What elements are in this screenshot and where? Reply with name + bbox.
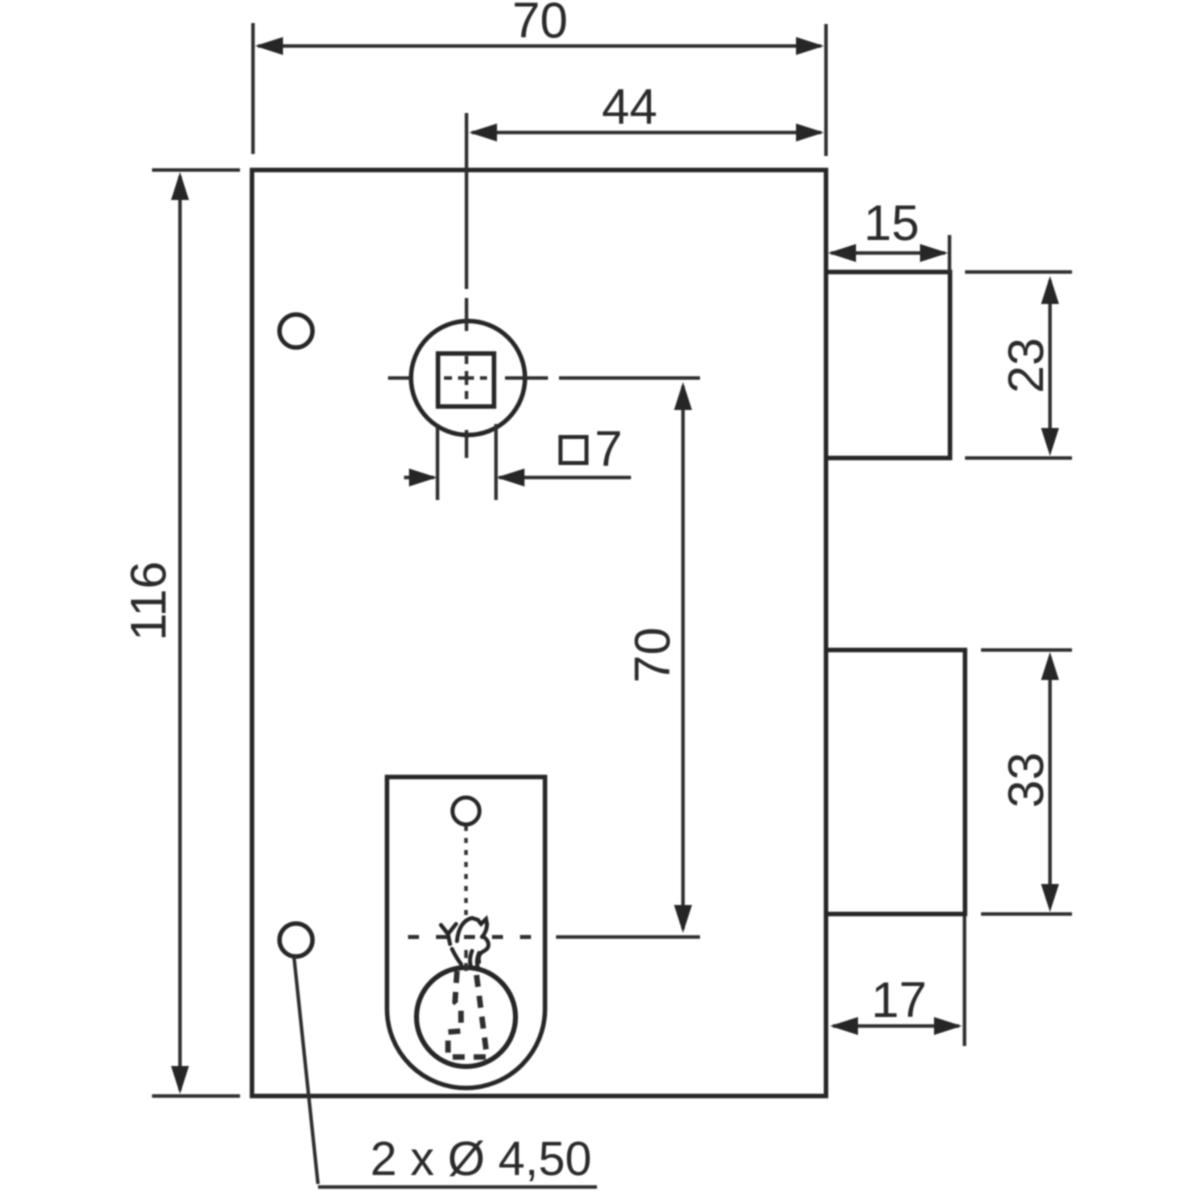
svg-text:2 x Ø 4,50: 2 x Ø 4,50: [370, 1133, 591, 1186]
svg-text:116: 116: [121, 561, 177, 641]
svg-text:15: 15: [864, 195, 920, 251]
svg-text:70: 70: [512, 0, 568, 49]
svg-text:23: 23: [998, 338, 1054, 394]
svg-text:44: 44: [602, 79, 658, 135]
svg-text:33: 33: [998, 752, 1054, 808]
svg-text:17: 17: [871, 972, 927, 1028]
svg-text:7: 7: [595, 421, 623, 477]
svg-text:70: 70: [625, 627, 681, 683]
